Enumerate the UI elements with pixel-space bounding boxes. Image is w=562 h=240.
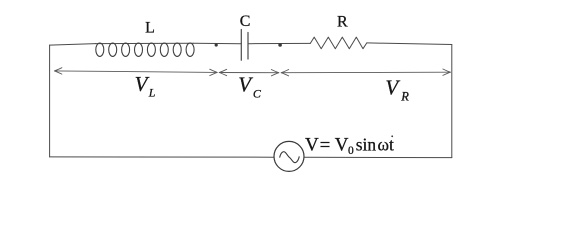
- svg-text:R: R: [400, 89, 409, 103]
- svg-text:V: V: [385, 75, 400, 99]
- svg-text:C: C: [253, 87, 262, 101]
- svg-text:V: V: [335, 134, 349, 155]
- svg-text:V: V: [135, 72, 150, 96]
- svg-text:C: C: [240, 13, 251, 30]
- svg-text:R: R: [337, 14, 348, 31]
- svg-text:L: L: [148, 85, 156, 99]
- svg-text:sin: sin: [356, 134, 377, 154]
- svg-text:V: V: [238, 72, 253, 96]
- svg-text:V: V: [305, 134, 319, 155]
- svg-text:0: 0: [348, 145, 354, 157]
- svg-text:ωt: ωt: [378, 134, 395, 154]
- svg-text:L: L: [145, 20, 155, 37]
- svg-text:=: =: [320, 135, 331, 156]
